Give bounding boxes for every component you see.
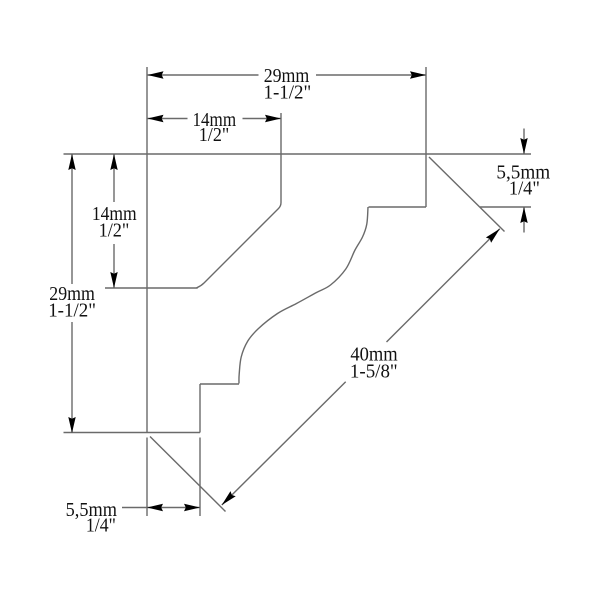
dimension 14mm left: bottom arrow: [110, 272, 117, 288]
dimension 5,5mm bottom: left arrow: [147, 504, 163, 511]
40mm upper 45deg extension stub: [429, 157, 505, 232]
svg-text:1/2": 1/2": [99, 220, 130, 242]
dimension 5,5mm bottom: right arrow: [184, 504, 200, 511]
dimension 14mm top: right arrow: [265, 115, 281, 122]
step horizontal at y=384: [200, 383, 239, 385]
dimension 29mm top: left arrow: [148, 71, 164, 78]
left edge of profile with upper extension: [146, 67, 148, 433]
top edge of profile with extension lines: [64, 153, 532, 155]
dimension 29mm left: line segments: [71, 154, 73, 284]
dimension 29mm left: top arrow: [68, 154, 75, 170]
dimension 5,5mm right: lower arrow shaft: [523, 207, 525, 233]
dimension 29mm top: line segments: [148, 74, 259, 76]
ogee curve (front decorative face): [239, 207, 368, 384]
40mm lower 45deg extension stub: [150, 437, 226, 512]
bottom dimension extension line at x=147: [146, 438, 148, 517]
svg-text:1/4": 1/4": [86, 515, 116, 537]
bottom dimension extension line at x=200: [199, 438, 201, 517]
dimension 5,5mm bottom: line with leader: [122, 507, 200, 509]
svg-text:1-5/8": 1-5/8": [350, 361, 398, 383]
svg-text:1-1/2": 1-1/2": [48, 300, 96, 322]
dimension 40mm diagonal: upper line segment: [387, 229, 500, 342]
horizontal edge at y=207: [369, 206, 427, 208]
dimension 5,5mm right: lower arrow (up): [520, 207, 527, 223]
dimension 5,5mm right: upper arrow shaft: [523, 129, 525, 155]
svg-text:1/2": 1/2": [199, 124, 230, 146]
dimension 29mm left: bottom arrow: [68, 417, 75, 433]
dimension 14mm top: line segments: [148, 118, 188, 120]
dimension 29mm top: right arrow: [410, 71, 426, 78]
bottom edge of profile with left extension: [64, 432, 201, 434]
dimension 14mm left: top arrow: [110, 154, 117, 170]
dimension 40mm diagonal: lower arrow (down-left): [219, 491, 236, 508]
dimension 14mm top: left arrow: [148, 115, 164, 122]
right lower extension line at y=207: [480, 206, 531, 208]
right vertical edge of profile with upper extension: [425, 67, 427, 207]
svg-text:1/4": 1/4": [509, 177, 540, 199]
step vertical at x=200: [199, 384, 201, 433]
inner back contour: vertical, 45deg chamfer, horizontal (hollow back): [105, 113, 281, 288]
dimension 5,5mm right: upper arrow (down): [520, 138, 527, 154]
svg-text:1-1/2": 1-1/2": [264, 82, 312, 104]
dimension 40mm diagonal: lower line segment: [222, 382, 346, 505]
dimension 14mm left: line segments: [113, 154, 115, 202]
dimension 40mm diagonal: upper arrow (up-right): [486, 226, 503, 243]
